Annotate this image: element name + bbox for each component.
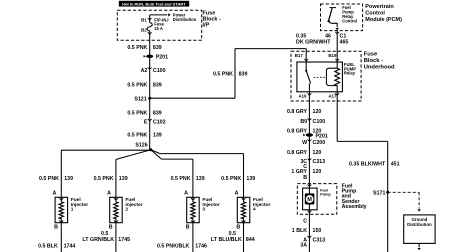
svg-text:0.35 BLK/WHT: 0.35 BLK/WHT (349, 162, 386, 168)
svg-text:0.8 GRY: 0.8 GRY (287, 109, 308, 115)
svg-text:844: 844 (246, 237, 255, 243)
svg-text:150: 150 (313, 228, 322, 234)
svg-text:B: B (54, 224, 58, 230)
svg-text:E: E (144, 119, 148, 125)
svg-text:Powertrain: Powertrain (365, 4, 394, 10)
svg-text:I/P: I/P (203, 23, 210, 29)
svg-text:839: 839 (153, 111, 162, 117)
svg-text:0.5 PNK: 0.5 PNK (39, 176, 59, 182)
svg-text:M: M (307, 197, 312, 203)
svg-text:DK GRN/WHT: DK GRN/WHT (296, 40, 331, 46)
svg-text:LT BLU/BLK: LT BLU/BLK (211, 237, 242, 243)
svg-text:1: 1 (71, 207, 74, 213)
svg-text:0.5 PNK: 0.5 PNK (127, 83, 147, 89)
svg-text:3: 3 (202, 207, 205, 213)
svg-text:A19: A19 (298, 94, 307, 99)
svg-text:15 A: 15 A (154, 26, 163, 31)
svg-text:B17: B17 (295, 53, 304, 58)
svg-text:Block -: Block - (203, 17, 222, 23)
svg-text:Distribution: Distribution (407, 222, 432, 227)
svg-text:Underhood: Underhood (364, 64, 395, 70)
svg-text:B9: B9 (300, 119, 307, 125)
svg-text:Module (PCM): Module (PCM) (365, 17, 402, 23)
svg-text:Relay: Relay (344, 71, 356, 76)
svg-text:46: 46 (325, 34, 331, 40)
svg-text:0.5 PNK/BLK: 0.5 PNK/BLK (157, 243, 190, 249)
svg-text:B19: B19 (328, 53, 337, 58)
svg-text:C100: C100 (313, 119, 326, 125)
svg-text:B: B (236, 224, 240, 230)
svg-text:W: W (302, 140, 307, 146)
svg-text:Control: Control (342, 18, 357, 23)
svg-text:0.5 BLK: 0.5 BLK (38, 243, 58, 249)
svg-text:1 BLK: 1 BLK (292, 228, 307, 234)
svg-text:Pump: Pump (320, 193, 331, 197)
svg-text:LT GRN/BLK: LT GRN/BLK (82, 237, 114, 243)
svg-text:120: 120 (313, 169, 322, 175)
svg-text:1745: 1745 (118, 237, 130, 243)
svg-text:C313: C313 (313, 238, 326, 244)
svg-text:0.5 PNK: 0.5 PNK (127, 133, 147, 139)
svg-text:451: 451 (391, 162, 400, 168)
svg-text:P201: P201 (156, 55, 168, 61)
svg-text:139: 139 (64, 176, 73, 182)
svg-text:0.35: 0.35 (296, 34, 306, 40)
svg-text:Fuse: Fuse (203, 10, 216, 16)
svg-text:Assembly: Assembly (342, 204, 367, 210)
svg-text:A2: A2 (141, 68, 148, 74)
svg-text:139: 139 (196, 176, 205, 182)
svg-text:0.5: 0.5 (101, 231, 108, 237)
svg-text:C: C (303, 219, 307, 225)
svg-text:465: 465 (340, 40, 349, 46)
svg-text:Block -: Block - (364, 58, 383, 64)
svg-text:0.8 GRY: 0.8 GRY (287, 150, 308, 156)
svg-text:S126: S126 (135, 143, 147, 149)
svg-text:0.5 PNK: 0.5 PNK (127, 45, 147, 51)
svg-text:0.5 PNK: 0.5 PNK (213, 72, 233, 78)
svg-text:C1: C1 (340, 34, 347, 40)
svg-text:0.5 PNK: 0.5 PNK (171, 176, 191, 182)
svg-text:B: B (303, 175, 307, 181)
svg-text:B: B (109, 224, 113, 230)
svg-text:Hot in RUN, Bulb Test and STAR: Hot in RUN, Bulb Test and START (122, 1, 186, 6)
svg-text:0.8 GRY: 0.8 GRY (287, 129, 308, 135)
svg-text:0.5 PNK: 0.5 PNK (127, 111, 147, 117)
svg-text:A17: A17 (328, 94, 337, 99)
svg-text:139: 139 (246, 176, 255, 182)
svg-text:2: 2 (125, 207, 128, 213)
svg-text:839: 839 (239, 72, 248, 78)
svg-text:A: A (52, 191, 56, 197)
svg-text:P201: P201 (316, 134, 328, 140)
svg-text:0.5 PNK: 0.5 PNK (221, 176, 241, 182)
svg-text:C313: C313 (313, 159, 326, 165)
svg-text:B2: B2 (141, 28, 147, 33)
svg-text:Control: Control (365, 11, 385, 17)
svg-text:C102: C102 (153, 119, 166, 125)
svg-text:A: A (107, 191, 111, 197)
svg-text:839: 839 (153, 45, 162, 51)
svg-text:C200: C200 (313, 140, 326, 146)
svg-text:4: 4 (253, 207, 256, 213)
svg-text:139: 139 (153, 133, 162, 139)
svg-text:S121: S121 (134, 96, 146, 102)
svg-text:3A: 3A (300, 243, 307, 249)
svg-text:C100: C100 (153, 68, 166, 74)
svg-text:120: 120 (313, 109, 322, 115)
svg-text:839: 839 (153, 83, 162, 89)
svg-text:A: A (184, 191, 188, 197)
svg-text:Fuse: Fuse (364, 52, 378, 58)
svg-text:0.5: 0.5 (229, 231, 236, 237)
svg-text:A: A (235, 191, 239, 197)
svg-text:120: 120 (313, 150, 322, 156)
svg-text:Distribution: Distribution (173, 17, 197, 22)
svg-text:1746: 1746 (195, 243, 207, 249)
svg-text:1744: 1744 (64, 243, 76, 249)
svg-text:139: 139 (119, 176, 128, 182)
svg-text:B1: B1 (141, 17, 147, 22)
svg-text:S171: S171 (373, 190, 385, 196)
svg-text:0.5 PNK: 0.5 PNK (94, 176, 114, 182)
svg-text:B: B (186, 224, 190, 230)
